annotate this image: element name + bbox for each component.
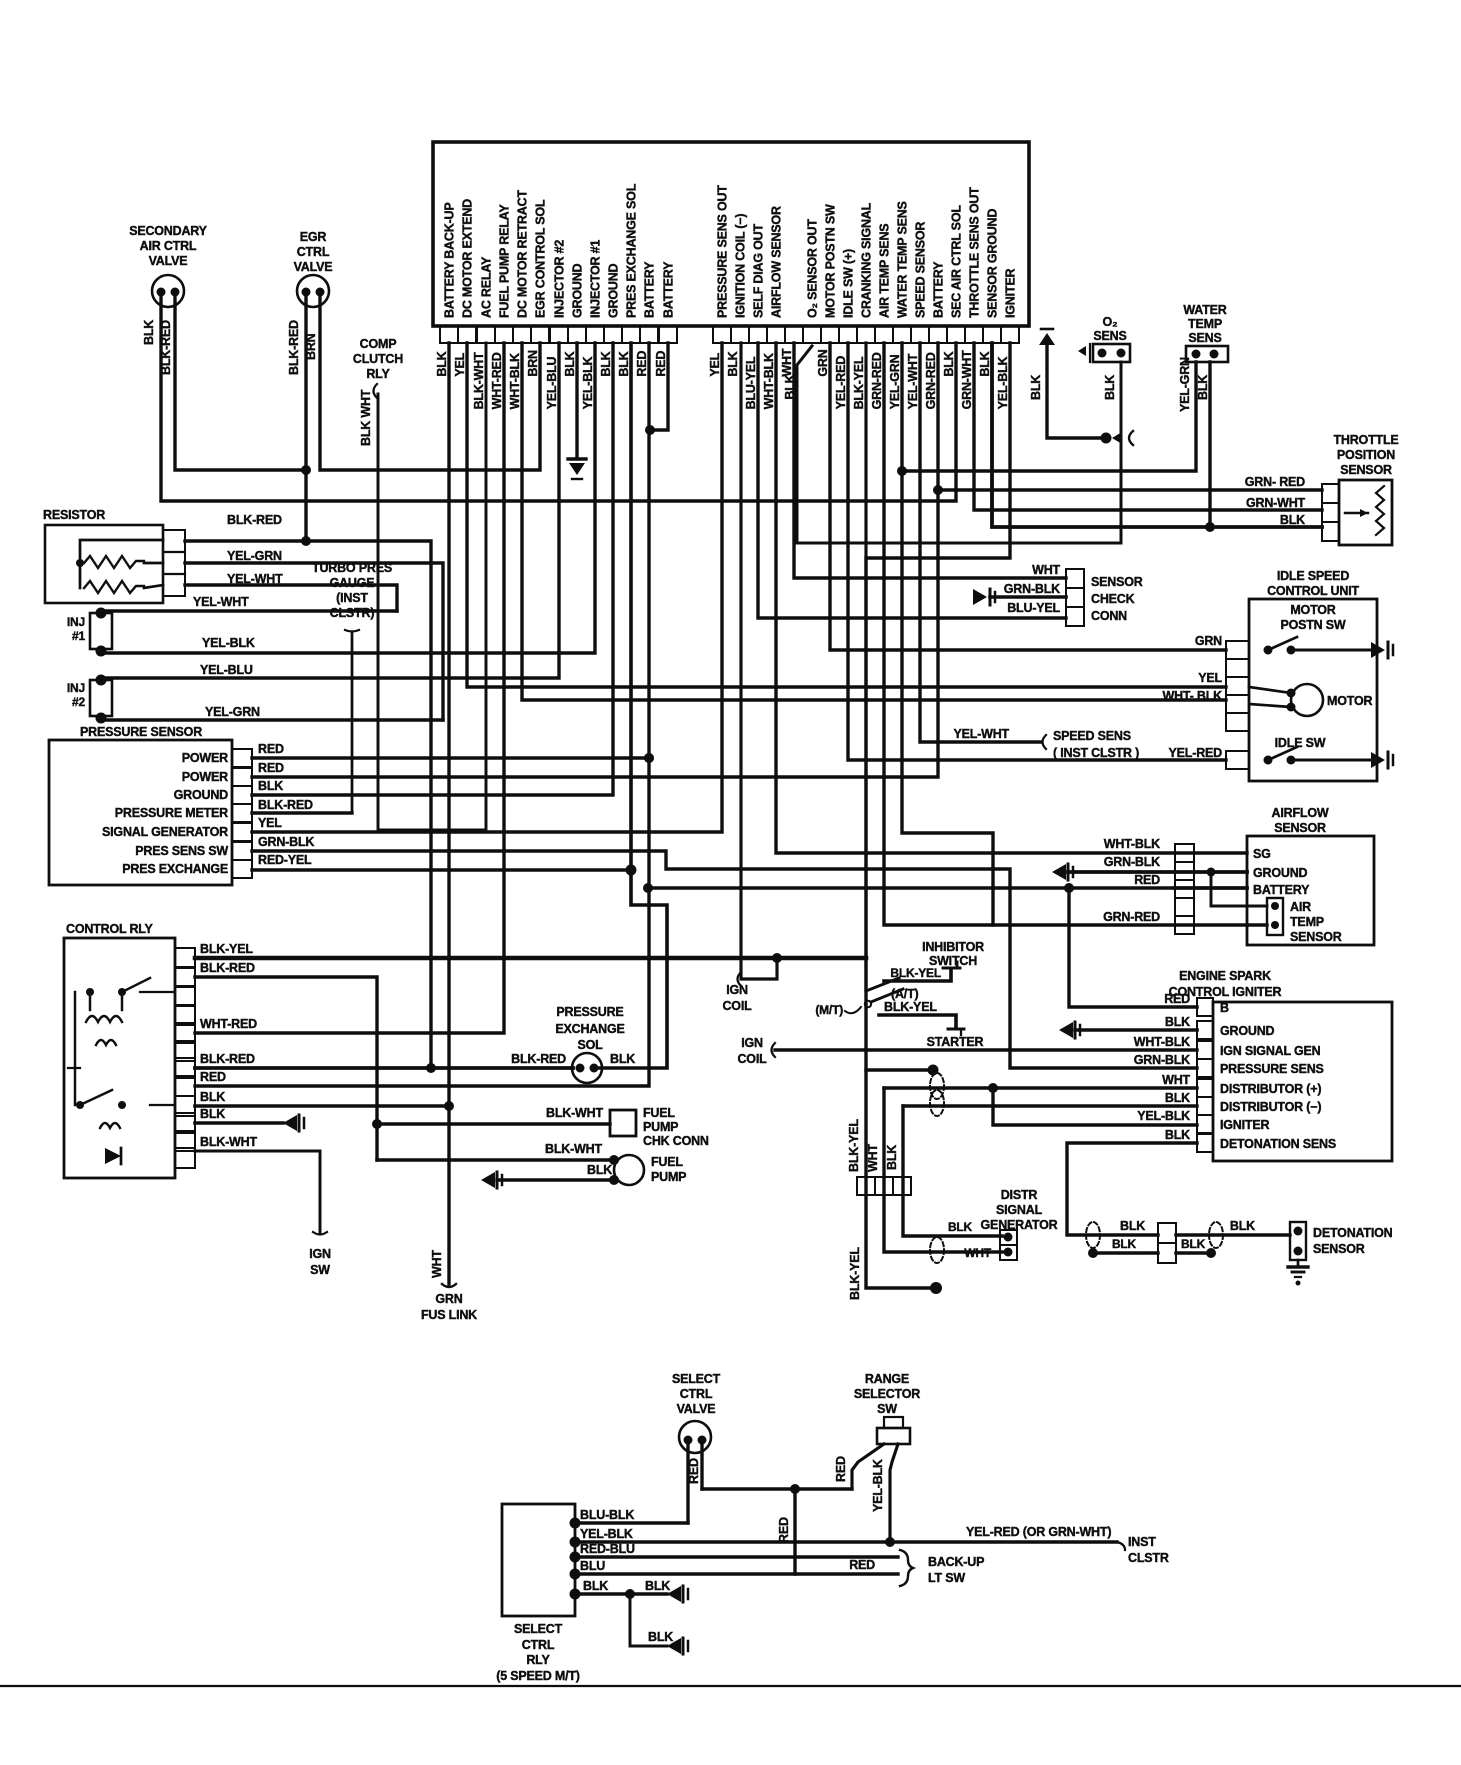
svg-text:DISTRIBUTOR (+): DISTRIBUTOR (+) [1220,1082,1321,1096]
svg-text:BATTERY: BATTERY [643,261,657,318]
secondary air ctrl valve [129,224,207,307]
svg-text:SW: SW [877,1402,897,1416]
svg-text:SELECTOR: SELECTOR [854,1387,920,1401]
wire YEL-WHT injector 1 top [101,595,397,611]
svg-text:MOTOR POSTN SW: MOTOR POSTN SW [824,204,838,318]
svg-text:YEL-GRN: YEL-GRN [205,705,260,719]
svg-text:BLK WHT: BLK WHT [359,389,373,446]
svg-text:WHT: WHT [1162,1073,1190,1087]
wire BLK-YEL control relay to inhibitor switch [195,942,866,963]
grn fus link label [421,1292,477,1322]
svg-text:SOL: SOL [577,1038,603,1052]
svg-text:SENSOR: SENSOR [1340,463,1392,477]
wire BLU-YEL to sensor check conn [758,343,1066,618]
svg-text:BLK-YEL: BLK-YEL [848,1247,862,1300]
svg-text:RED: RED [777,1517,791,1543]
svg-text:RANGE: RANGE [865,1372,909,1386]
select ctrl valve [672,1372,721,1453]
wire RED pressure sensor power 1 [252,742,654,763]
svg-text:AIRFLOW: AIRFLOW [1272,806,1329,820]
svg-text:DC MOTOR RETRACT: DC MOTOR RETRACT [516,190,530,318]
svg-text:CLSTR): CLSTR) [330,606,375,620]
svg-text:BLU: BLU [580,1559,605,1573]
pressure sensor block [49,725,252,885]
svg-text:YEL-RED (OR GRN-WHT): YEL-RED (OR GRN-WHT) [966,1525,1111,1539]
wire YEL-BLK range selector right leg [871,1444,898,1547]
svg-text:WHT-BLK: WHT-BLK [508,353,522,409]
svg-text:#2: #2 [72,695,85,709]
svg-text:O₂: O₂ [1103,315,1118,329]
svg-text:WHT: WHT [964,1246,992,1260]
svg-text:RED: RED [258,761,284,775]
detonation sensor [1288,1222,1393,1286]
svg-text:#1: #1 [72,629,85,643]
wire RED airflow battery label [1134,873,1310,897]
svg-text:WATER TEMP SENS: WATER TEMP SENS [896,201,910,318]
svg-text:WHT: WHT [1032,563,1060,577]
water temp sens [1183,303,1228,362]
svg-text:WHT-BLK: WHT-BLK [1134,1035,1190,1049]
svg-text:BLK: BLK [258,779,283,793]
wire BLK detonation sens [1067,1128,1197,1235]
wire BLU select ctrl rly to back-up lt sw [570,1558,899,1580]
svg-text:GRN: GRN [435,1292,462,1306]
wire BLK distributor minus cable [885,1106,1002,1236]
svg-text:GRN-BLK: GRN-BLK [1004,582,1060,596]
svg-text:BLK-RED: BLK-RED [200,1052,255,1066]
wire BLK distributor minus to igniter [903,1091,1197,1106]
wire YEL DC MOTOR EXTEND pin to idle speed control unit [467,343,1226,687]
svg-text:BLK: BLK [1280,513,1305,527]
svg-text:BLK: BLK [1029,375,1043,400]
svg-text:CONN: CONN [1091,609,1127,623]
svg-text:COIL: COIL [737,1052,767,1066]
svg-text:WHT: WHT [430,1250,444,1278]
svg-text:WATER: WATER [1183,303,1226,317]
wire BLK-RED turbo pres gauge to pressure sensor PRESSURE METER [252,633,352,813]
wire BLK select ctrl rly to grounds [570,1579,689,1654]
svg-text:RLY: RLY [366,367,390,381]
wire YEL-BLK from injector 1 to INJECTOR #1 pin [101,343,595,653]
svg-text:GRN-RED: GRN-RED [1103,910,1160,924]
svg-text:BLK: BLK [599,351,613,376]
svg-text:IGNITER: IGNITER [1220,1118,1269,1132]
svg-text:IGNITION COIL (−): IGNITION COIL (−) [734,214,748,318]
wire YEL-WHT speed sensor pin to speed sens [920,343,1139,760]
svg-text:BLU-YEL: BLU-YEL [744,356,758,409]
svg-text:DC MOTOR EXTEND: DC MOTOR EXTEND [461,199,475,318]
wire YEL-RED idle sw pin [848,343,1226,760]
svg-text:BATTERY BACK-UP: BATTERY BACK-UP [443,202,457,318]
wire RED rail between valve and range selector [702,1484,852,1574]
svg-text:WHT-BLK: WHT-BLK [762,353,776,409]
svg-text:POWER: POWER [182,751,228,765]
wire GRN motor postn sw pin [830,343,1226,650]
svg-text:CLSTR: CLSTR [1128,1551,1169,1565]
wire RED second battery pin jog [645,343,668,435]
svg-text:GRN-BLK: GRN-BLK [1134,1053,1190,1067]
wire BLK-RED control relay to pressure exchange sol [195,1052,573,1073]
svg-text:RED-BLU: RED-BLU [580,1542,635,1556]
wire RED branch to airflow sensor battery [643,883,1175,893]
svg-text:IDLE SW (+): IDLE SW (+) [842,249,856,318]
svg-text:SENSOR: SENSOR [1274,821,1326,835]
svg-text:GROUND: GROUND [1253,866,1308,880]
wire BLK-WHT control relay to ign sw [195,1135,327,1235]
wire GRN-RED battery pin to throttle sensor [933,475,1322,495]
svg-text:DETONATION SENS: DETONATION SENS [1220,1137,1336,1151]
svg-text:YEL-GRN: YEL-GRN [888,354,902,409]
egr ctrl valve [294,230,333,307]
svg-text:TEMP: TEMP [1188,317,1222,331]
svg-text:BLK-WHT: BLK-WHT [472,352,486,409]
svg-text:POSTN SW: POSTN SW [1280,618,1345,632]
svg-text:SPEED SENS: SPEED SENS [1053,729,1131,743]
svg-text:SELECT: SELECT [672,1372,721,1386]
svg-text:BLK: BLK [1103,375,1117,400]
svg-text:GRN-BLK: GRN-BLK [1104,855,1160,869]
svg-text:CTRL: CTRL [297,245,330,259]
svg-text:RED: RED [849,1558,875,1572]
svg-text:PRESSURE SENSOR: PRESSURE SENSOR [80,725,202,739]
wire YEL dc motor extend label [1198,671,1222,685]
svg-text:YEL-GRN: YEL-GRN [227,549,282,563]
svg-text:SENSOR: SENSOR [1091,575,1143,589]
wire GRN-BLK ground to sensor check conn [973,582,1066,605]
svg-text:BLK: BLK [583,1579,608,1593]
injector INJ #2 [67,675,112,724]
svg-text:VALVE: VALVE [294,260,333,274]
wire BLK-RED from resistor (turns down to control relay area) [185,513,431,1067]
wire BLK pressure exchange sol to PRES EXCHANGE SOL pin [600,343,667,1068]
wire BLK WHT from comp clutch rly to AC RELAY pin [359,343,486,830]
svg-text:AIR CTRL: AIR CTRL [140,239,197,253]
svg-text:( INST CLSTR ): ( INST CLSTR ) [1053,746,1139,760]
wire WHT-BLK dc motor retract label [1163,689,1223,703]
svg-text:INJECTOR #2: INJECTOR #2 [553,240,567,318]
svg-text:PUMP: PUMP [651,1170,686,1184]
svg-text:BLK-RED: BLK-RED [227,513,282,527]
svg-text:BLK-RED: BLK-RED [511,1052,566,1066]
svg-text:BLK: BLK [617,351,631,376]
wire BLK-RED pressure sensor pressure meter [252,798,352,813]
wire YEL-WHT from resistor to injector 1 line [185,572,397,611]
sensor check conn [1066,569,1143,626]
svg-text:BLK: BLK [610,1052,635,1066]
svg-text:GRN: GRN [816,349,830,376]
idle sw [1264,736,1394,768]
svg-text:CRANKING SIGNAL: CRANKING SIGNAL [860,202,874,318]
svg-text:INHIBITOR: INHIBITOR [922,940,984,954]
wire valve left pin to select ctrl rly BLU-BLK [687,1445,701,1523]
svg-text:LT SW: LT SW [928,1571,965,1585]
idle speed control unit box [1226,569,1377,781]
svg-text:DISTR: DISTR [1001,1188,1038,1202]
cable connector 3 cells [857,1177,911,1195]
wire BLK igniter ground [1059,1015,1197,1038]
svg-text:EGR: EGR [300,230,327,244]
throttle position sensor [1322,433,1399,545]
wire BLK control relay to ground [195,1107,304,1131]
wire BLK from o2 sens to O2 SENSOR OUT pin [797,346,1121,543]
svg-text:PUMP: PUMP [643,1120,678,1134]
svg-text:GRN-RED: GRN-RED [870,352,884,409]
wire WHT-BLK DC MOTOR RETRACT pin to idle speed control unit [522,343,1226,700]
svg-text:BLK-YEL: BLK-YEL [852,356,866,409]
svg-text:GROUND: GROUND [174,788,229,802]
back-up lt sw [900,1550,984,1586]
svg-text:COIL: COIL [722,999,752,1013]
svg-text:INST: INST [1128,1535,1156,1549]
svg-text:BLK: BLK [978,351,992,376]
svg-text:CONTROL RLY: CONTROL RLY [66,922,154,936]
svg-text:SG: SG [1253,847,1271,861]
svg-text:GROUND: GROUND [607,263,621,318]
wire BLK sensor ground pin to throttle sensor [992,343,1322,527]
svg-text:BACK-UP: BACK-UP [928,1555,984,1569]
svg-text:YEL-RED: YEL-RED [834,356,848,410]
svg-text:BLK: BLK [200,1107,225,1121]
wire YEL-BLK select ctrl rly to inst clstr [570,1525,1169,1565]
injector INJ #1 [67,608,112,657]
wire WHT-BLK airflow sensor pin SG [776,343,1271,861]
svg-text:RED-YEL: RED-YEL [258,853,312,867]
wire YEL-GRN water temp sens to WATER TEMP SENS pin [897,343,1196,476]
svg-text:YEL: YEL [453,352,467,376]
svg-text:AIR TEMP SENS: AIR TEMP SENS [878,224,892,318]
svg-text:BLK: BLK [1112,1237,1137,1251]
svg-text:MOTOR: MOTOR [1327,694,1372,708]
svg-text:IDLE SPEED: IDLE SPEED [1277,569,1349,583]
resistor block [43,508,185,603]
wire BLK-RED from secondary air ctrl valve [159,296,306,470]
svg-text:SEC AIR CTRL SOL: SEC AIR CTRL SOL [950,205,964,318]
svg-text:(M/T): (M/T) [815,1003,843,1017]
wire valve right pin down to red rail [700,1445,703,1489]
svg-text:BLK-RED: BLK-RED [287,320,301,375]
ign sw label [309,1247,331,1277]
svg-text:POWER: POWER [182,770,228,784]
wire GRN-BLK pressure sensor pres sens sw to spark igniter [252,835,1197,1068]
svg-text:SIGNAL GENERATOR: SIGNAL GENERATOR [102,825,228,839]
svg-text:YEL-RED: YEL-RED [1169,746,1223,760]
svg-text:PRESSURE SENS OUT: PRESSURE SENS OUT [716,185,730,318]
svg-text:BATTERY: BATTERY [932,261,946,318]
svg-text:BLK: BLK [587,1163,612,1177]
wire YEL-GRN from resistor to injector 2 line [185,549,443,720]
svg-text:CTRL: CTRL [680,1387,713,1401]
svg-text:FUS LINK: FUS LINK [421,1308,477,1322]
svg-text:PRESSURE SENS: PRESSURE SENS [1220,1062,1324,1076]
svg-text:BLK: BLK [1120,1219,1145,1233]
ign coil 1 [722,343,777,1013]
svg-text:INJECTOR #1: INJECTOR #1 [589,240,603,318]
svg-text:YEL-BLK: YEL-BLK [202,636,255,650]
svg-text:YEL: YEL [258,816,282,830]
svg-text:EXCHANGE: EXCHANGE [555,1022,624,1036]
wire GRN-BLK pressure sens label [1134,1053,1190,1067]
select ctrl rly block [496,1504,580,1683]
svg-text:RED: RED [635,351,649,377]
svg-text:BLK-YEL: BLK-YEL [884,1000,937,1014]
svg-text:BLK-WHT: BLK-WHT [200,1135,257,1149]
svg-text:BLK: BLK [645,1579,670,1593]
svg-text:THROTTLE SENS OUT: THROTTLE SENS OUT [968,187,982,318]
idle motor [1249,684,1372,716]
ECU wire colour labels left group [435,350,668,409]
svg-text:BLK: BLK [942,351,956,376]
svg-text:STARTER: STARTER [927,1035,984,1049]
svg-text:RED: RED [687,1458,701,1484]
svg-text:BLK: BLK [1165,1015,1190,1029]
wire BLK-RED from egr ctrl valve down to resistor BLK-RED line [287,296,311,546]
svg-text:IGN: IGN [726,983,748,997]
wire RED control relay to BATTERY pin [195,343,654,1086]
svg-text:SELF DIAG OUT: SELF DIAG OUT [752,224,766,318]
svg-text:FUEL: FUEL [643,1106,675,1120]
svg-text:RED: RED [200,1070,226,1084]
wire BLK control relay joins main BLK wire [195,1090,454,1111]
svg-text:(5 SPEED M/T): (5 SPEED M/T) [496,1669,580,1683]
svg-text:WHT: WHT [866,1144,880,1172]
wire BLK-RED control relay (turns down to fuel pump chk conn) [195,961,382,1160]
svg-text:YEL-GRN: YEL-GRN [1178,357,1192,412]
svg-text:SENSOR: SENSOR [1290,930,1342,944]
svg-text:O₂ SENSOR OUT: O₂ SENSOR OUT [806,219,820,318]
svg-text:VALVE: VALVE [677,1402,716,1416]
svg-text:IGNITER: IGNITER [1004,269,1018,318]
svg-text:GROUND: GROUND [571,263,585,318]
svg-text:WHT-BLK: WHT-BLK [1104,837,1160,851]
wire YEL-BLK igniter pin label [988,1083,1197,1125]
svg-text:CLUTCH: CLUTCH [353,352,403,366]
svg-text:FUEL: FUEL [651,1155,683,1169]
svg-text:SENS: SENS [1093,329,1126,343]
wire elbow from water temp junction to airflow GRN-RED line [902,471,993,925]
ground symbol on ECU GROUND pin 8 [568,343,586,479]
svg-text:YEL: YEL [1198,671,1222,685]
svg-text:BLK-WHT: BLK-WHT [545,1142,602,1156]
svg-text:IGN: IGN [741,1036,763,1050]
pressure exchange sol [511,1005,635,1083]
svg-text:CTRL: CTRL [522,1638,555,1652]
svg-text:RED: RED [1134,873,1160,887]
wire GRN-WHT throttle sens out pin to throttle sensor [974,343,1322,510]
range selector sw [854,1372,920,1444]
wire BLK pressure sensor ground to ECU GROUND pin 10 [252,343,613,795]
svg-text:BLU-BLK: BLU-BLK [580,1508,634,1522]
inhibitor switch [815,343,984,1035]
svg-text:RED: RED [1164,992,1190,1006]
svg-text:BLU-YEL: BLU-YEL [1007,601,1060,615]
svg-text:RED: RED [834,1456,848,1482]
svg-text:BLK: BLK [1196,375,1210,400]
svg-text:COMP: COMP [360,337,397,351]
svg-text:GRN-RED: GRN-RED [924,352,938,409]
svg-text:INJ: INJ [67,615,85,629]
svg-text:BLK: BLK [1230,1219,1255,1233]
ECU control unit box [433,142,1029,326]
svg-text:BRN: BRN [304,333,318,360]
control relay block [64,922,195,1178]
airflow sensor box [1175,806,1374,945]
svg-text:ENGINE SPARK: ENGINE SPARK [1179,969,1271,983]
svg-text:SENSOR GROUND: SENSOR GROUND [986,209,1000,318]
wire WHT-BLK ign signal gen label [1134,1035,1190,1049]
wire RED pressure sensor power 2 to BATTERY pin [252,343,938,777]
svg-text:WHT: WHT [780,348,794,376]
cable shield markers [930,1073,944,1263]
svg-text:YEL-BLU: YEL-BLU [200,663,253,677]
svg-text:AIR: AIR [1290,900,1311,914]
wire GRN-RED air temp sens pin to air temp sensor [884,343,1267,925]
wire BLU-BLK select ctrl rly to valve [570,1508,689,1529]
svg-text:SECONDARY: SECONDARY [129,224,207,238]
svg-text:RLY: RLY [526,1653,550,1667]
svg-text:YEL-BLK: YEL-BLK [996,356,1010,409]
svg-text:CONTROL UNIT: CONTROL UNIT [1267,584,1359,598]
svg-text:SENSOR: SENSOR [1313,1242,1365,1256]
svg-text:VALVE: VALVE [149,254,188,268]
detonation wiring connector [1086,1219,1290,1263]
svg-text:BLK-RED: BLK-RED [159,320,173,375]
fuel pump chk conn [377,1106,709,1148]
svg-text:AC RELAY: AC RELAY [480,256,494,318]
ign coil 2 [737,1036,1197,1066]
svg-text:THROTTLE: THROTTLE [1333,433,1398,447]
svg-text:PRESSURE METER: PRESSURE METER [115,806,228,820]
wire BRN from egr ctrl valve to EGR CONTROL SOL pin [304,296,540,470]
fuel pump [377,1142,686,1188]
svg-text:IDLE SW: IDLE SW [1275,736,1326,750]
o2 sens [1078,315,1130,362]
svg-text:MOTOR: MOTOR [1290,603,1335,617]
svg-text:BLK: BLK [142,320,156,345]
svg-text:(INST: (INST [336,591,368,605]
svg-text:WHT-RED: WHT-RED [490,352,504,409]
ECU connector pins right group [713,326,1019,343]
wire RED battery feed to igniter B label [1164,992,1190,1006]
svg-text:IGN: IGN [309,1247,331,1261]
wire YEL-GRN injector 2 bottom [101,705,443,720]
motor postn sw [1264,603,1394,658]
svg-text:FUEL PUMP RELAY: FUEL PUMP RELAY [498,204,512,318]
svg-text:RESISTOR: RESISTOR [43,508,105,522]
wire BLK from BATTERY BACK-UP pin down to fuse link [430,343,456,1287]
air temp sensor [1267,898,1342,944]
svg-text:SELECT: SELECT [514,1622,563,1636]
wire RED branch to engine spark igniter B [1069,888,1197,1007]
svg-text:YEL: YEL [708,352,722,376]
svg-text:POSITION: POSITION [1337,448,1395,462]
svg-text:BLK: BLK [648,1630,673,1644]
svg-text:PRES SENS SW: PRES SENS SW [135,844,228,858]
svg-text:SENS: SENS [1188,331,1221,345]
wire WHT distributor plus cable [866,1088,1002,1260]
svg-text:BLK: BLK [1165,1091,1190,1105]
svg-text:PRESSURE: PRESSURE [556,1005,623,1019]
svg-text:EGR CONTROL SOL: EGR CONTROL SOL [534,199,548,318]
ECU connector pins left group [440,326,677,343]
svg-text:BLK: BLK [435,351,449,376]
wire BLK-YEL from IGNITER ECU pin down distributor cable [847,343,1010,1300]
svg-text:PRES EXCHANGE: PRES EXCHANGE [122,862,228,876]
svg-text:YEL-BLK: YEL-BLK [580,1527,633,1541]
svg-text:BATTERY: BATTERY [1253,883,1310,897]
ECU pin name labels right group [716,185,1018,318]
svg-text:TURBO PRES: TURBO PRES [312,561,392,575]
ground lead BLK near ECU right [1029,329,1133,445]
